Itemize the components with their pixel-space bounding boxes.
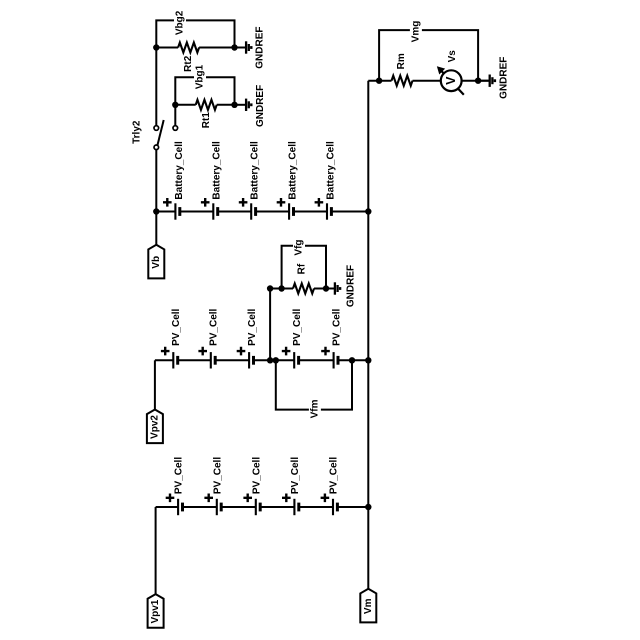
node Rt1 right xyxy=(231,102,237,108)
node Rt2 left xyxy=(153,44,159,50)
wire Vbg2 probe loop xyxy=(156,20,234,47)
svg-text:GNDREF: GNDREF xyxy=(255,26,266,68)
node battery row left xyxy=(153,208,159,214)
PV_Cell P2-5 xyxy=(321,308,342,368)
wire Rf left xyxy=(270,288,293,290)
wire to Vpv1 tag xyxy=(155,507,157,594)
node Vmg left xyxy=(376,78,382,84)
svg-text:Vs: Vs xyxy=(447,50,458,63)
label Rm xyxy=(396,53,407,69)
wire switch to battery row xyxy=(155,150,157,212)
wire Rt2 left xyxy=(156,47,178,49)
node Rf left xyxy=(267,285,273,291)
svg-text:PV_Cell: PV_Cell xyxy=(171,308,182,345)
svg-text:PV_Cell: PV_Cell xyxy=(331,308,342,345)
svg-text:Vbg2: Vbg2 xyxy=(175,10,186,35)
resistor Rt2 xyxy=(178,43,199,53)
svg-text:PV_Cell: PV_Cell xyxy=(251,457,262,494)
node Vmg right xyxy=(475,78,481,84)
Battery_Cell B4 xyxy=(277,141,299,220)
node Rt2 right xyxy=(231,44,237,50)
svg-text:Battery_Cell: Battery_Cell xyxy=(325,141,336,200)
svg-text:Vm: Vm xyxy=(363,598,374,614)
PV_Cell P1-3 xyxy=(243,457,262,516)
ground GNDREF (Rf) xyxy=(326,282,340,294)
svg-text:Vfg: Vfg xyxy=(294,239,305,255)
svg-text:Vb: Vb xyxy=(151,256,162,269)
svg-text:Rt2: Rt2 xyxy=(183,55,194,72)
net tag Vm xyxy=(360,589,376,623)
svg-text:Vpv1: Vpv1 xyxy=(150,599,161,623)
svg-text:PV_Cell: PV_Cell xyxy=(212,457,223,494)
svg-text:Vbg1: Vbg1 xyxy=(195,64,206,89)
switch contact (to Rt1) xyxy=(173,126,178,131)
wire PV2 row to Rf xyxy=(269,289,271,361)
svg-text:Battery_Cell: Battery_Cell xyxy=(174,141,185,200)
resistor Rm xyxy=(392,76,413,86)
wire to Vb tag xyxy=(155,212,157,245)
PV_Cell P2-3 xyxy=(237,308,258,368)
net tag Vpv2 xyxy=(147,410,163,444)
wire battery row xyxy=(156,211,368,213)
wire Rt1 right xyxy=(217,104,235,106)
wire PV row 1 xyxy=(156,506,369,508)
node PV2 Rf branch xyxy=(267,357,273,363)
svg-text:Trly2: Trly2 xyxy=(131,120,142,144)
Battery_Cell B5 xyxy=(315,141,337,220)
switch Trly2 xyxy=(154,120,164,150)
PV_Cell P2-2 xyxy=(198,308,219,368)
PV_Cell P1-2 xyxy=(204,457,223,516)
node Vfg left xyxy=(278,285,284,291)
label Vmg xyxy=(410,19,422,44)
svg-text:PV_Cell: PV_Cell xyxy=(329,457,340,494)
svg-text:PV_Cell: PV_Cell xyxy=(209,308,220,345)
svg-text:GNDREF: GNDREF xyxy=(346,265,357,307)
wire Rt1 left xyxy=(175,104,195,106)
ground GNDREF (Rt1) xyxy=(235,99,252,111)
svg-text:PV_Cell: PV_Cell xyxy=(290,457,301,494)
label Trly2 xyxy=(131,120,142,144)
wire PV row 2 xyxy=(155,359,368,361)
net tag Vpv1 xyxy=(148,594,164,628)
svg-text:Vfm: Vfm xyxy=(309,399,320,418)
svg-text:Battery_Cell: Battery_Cell xyxy=(288,141,299,200)
wire Rt2 right xyxy=(199,47,234,49)
label Vbg1 xyxy=(194,64,206,91)
node PV2 bus xyxy=(365,357,371,363)
svg-text:PV_Cell: PV_Cell xyxy=(292,308,303,345)
ground GNDREF (Rt2) xyxy=(235,41,252,53)
node PV2 Vfm left xyxy=(273,357,279,363)
svg-text:Rm: Rm xyxy=(396,53,407,69)
svg-text:Vpv2: Vpv2 xyxy=(149,415,160,439)
Battery_Cell B3 xyxy=(239,141,261,220)
wire Vfm probe loop xyxy=(276,360,352,409)
label GNDREF (top right) xyxy=(499,57,510,99)
PV_Cell P1-4 xyxy=(282,457,301,516)
voltmeter Vs xyxy=(438,67,464,95)
PV_Cell P2-1 xyxy=(161,308,182,368)
svg-text:Vmg: Vmg xyxy=(410,21,421,43)
label Rt2 xyxy=(183,55,194,72)
svg-text:Rf: Rf xyxy=(297,263,308,274)
Battery_Cell B2 xyxy=(201,141,223,220)
net tag Vb xyxy=(148,245,164,279)
node battery row right (bus) xyxy=(365,208,371,214)
svg-text:PV_Cell: PV_Cell xyxy=(174,457,185,494)
PV_Cell P2-4 xyxy=(282,308,303,368)
node Rt1 left xyxy=(172,102,178,108)
ground GNDREF (top right) xyxy=(478,75,495,87)
Battery_Cell B1 xyxy=(163,141,185,220)
label Vfm xyxy=(309,398,321,420)
label Vs xyxy=(447,50,458,63)
wire Rm to ground xyxy=(413,80,489,82)
wire Vbg1 probe loop xyxy=(175,77,234,105)
node Rf right xyxy=(323,285,329,291)
label GNDREF (Rt1) xyxy=(255,85,266,127)
PV_Cell P1-1 xyxy=(166,457,185,516)
node PV2 Vfm right xyxy=(349,357,355,363)
label GNDREF (Rt2) xyxy=(255,26,266,68)
svg-text:V: V xyxy=(444,76,458,85)
wire Vfg probe loop xyxy=(282,246,326,289)
label GNDREF (Rf) xyxy=(346,265,357,307)
svg-text:PV_Cell: PV_Cell xyxy=(247,308,258,345)
svg-text:GNDREF: GNDREF xyxy=(255,85,266,127)
wire Rt1-node to contact xyxy=(174,105,176,126)
wire bus corner to Rm xyxy=(368,80,391,82)
resistor Rt1 xyxy=(196,100,217,110)
wire to Vpv2 tag xyxy=(154,360,156,409)
label Vfg xyxy=(293,237,305,259)
label Rf xyxy=(297,263,308,274)
node PV1 bus xyxy=(365,504,371,510)
wire Rt2-node to switch xyxy=(155,48,157,126)
label Rt1 xyxy=(201,112,212,129)
resistor Rf xyxy=(293,284,314,294)
PV_Cell P1-5 xyxy=(321,457,340,516)
label Vbg2 xyxy=(174,9,186,36)
svg-text:Battery_Cell: Battery_Cell xyxy=(250,141,261,200)
wire Rf right xyxy=(314,288,326,290)
wire main bus xyxy=(367,81,369,589)
svg-text:GNDREF: GNDREF xyxy=(499,57,510,99)
wire Vmg probe loop xyxy=(379,30,478,81)
svg-text:Battery_Cell: Battery_Cell xyxy=(212,141,223,200)
svg-text:Rt1: Rt1 xyxy=(201,112,212,129)
